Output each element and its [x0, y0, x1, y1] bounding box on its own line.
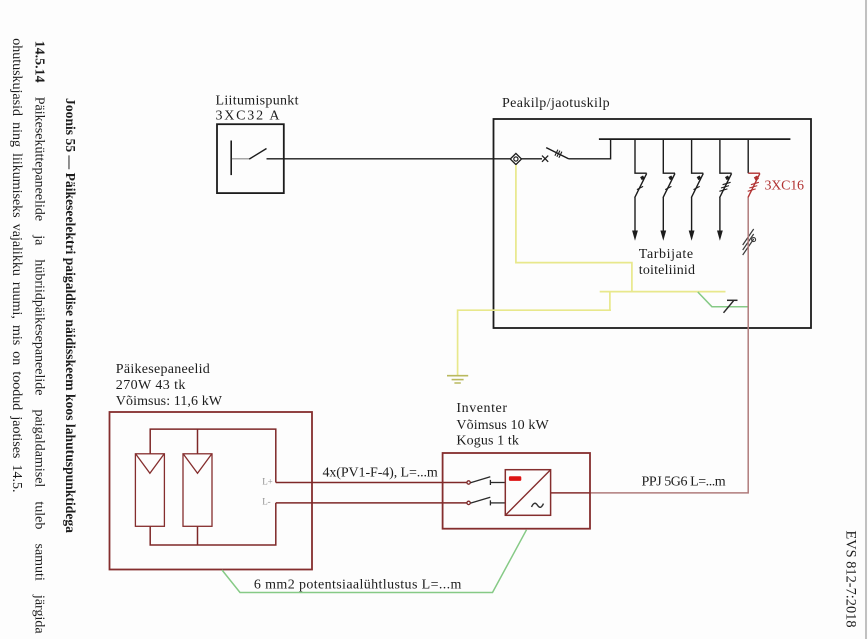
feeder breaker 5 (red, 3XC16): [747, 139, 749, 173]
PV string wiring top bus: [150, 429, 276, 482]
inverter output wire: [551, 492, 590, 494]
label Tarbijate toiteliinid: [639, 247, 695, 278]
svg-text:Võimsus: 11,6 kW: Võimsus: 11,6 kW: [116, 394, 223, 409]
svg-text:L+: L+: [262, 476, 273, 486]
PV array box: [110, 412, 313, 570]
feeder breaker 4: [717, 139, 732, 241]
svg-text:6 mm2 potentsiaalühtlustus L=.: 6 mm2 potentsiaalühtlustus L=...m: [254, 578, 462, 593]
feeder breaker 1: [632, 139, 647, 241]
PE wire (yellow) from meter: [516, 165, 632, 292]
PE busbar wire (yellow): [600, 291, 726, 293]
switch S1 blade: [249, 149, 266, 160]
main switch blade: [546, 148, 568, 159]
inverter box: [443, 453, 590, 529]
meter diamond node: [510, 153, 521, 164]
right page border: [865, 0, 867, 639]
label Inventer block: [456, 401, 549, 449]
label 4x(PV1-F-4): [323, 466, 438, 481]
svg-text:Võimsus 10 kW: Võimsus 10 kW: [456, 418, 549, 433]
figure caption Joonis 55 (rotated): [62, 98, 77, 533]
PV string wiring bottom bus: [150, 503, 276, 545]
equipotential bonding wire (green): [222, 530, 527, 593]
switch S1 pole bar: [230, 141, 232, 176]
svg-text:Kogus 1 tk: Kogus 1 tk: [456, 434, 519, 449]
feeder breaker 3: [689, 139, 704, 241]
switch S1 stub: [232, 158, 249, 160]
ground symbol: [447, 376, 468, 383]
wire switch to busbar riser: [569, 139, 611, 159]
earth link T mark: [724, 300, 738, 313]
red riser wire PPJ: [590, 198, 748, 493]
green link wire in panel: [698, 292, 748, 307]
DC wire L-: [276, 502, 467, 504]
svg-text:Tarbijate: Tarbijate: [639, 247, 693, 262]
svg-text:PPJ 5G6 L=...m: PPJ 5G6 L=...m: [642, 475, 726, 490]
svg-text:3XC16: 3XC16: [765, 179, 805, 194]
labels L+ L-: [262, 476, 273, 506]
svg-text:Päikesepaneelid: Päikesepaneelid: [116, 362, 210, 377]
busbar: [599, 138, 791, 140]
main switch X mark: [542, 156, 548, 162]
svg-text:270W 43 tk: 270W 43 tk: [116, 378, 186, 393]
paragraph 14.5.14 line 1 (rotated): [32, 41, 47, 635]
svg-text:Peakilp/jaotuskilp: Peakilp/jaotuskilp: [502, 96, 610, 111]
svg-text:ohutuskujasid ning liikumiseks: ohutuskujasid ning liikumiseks vajalikku…: [9, 38, 24, 492]
main distribution board box: [494, 119, 812, 328]
DC wire L+: [276, 482, 467, 484]
svg-text:Liitumispunkt: Liitumispunkt: [216, 94, 299, 109]
label PPJ 5G6: [642, 475, 726, 490]
DC switch 2: [467, 497, 505, 505]
wire Liitumispunkt to Peakilp: [267, 158, 511, 160]
standard reference EVS 812-7:2018 (rotated): [843, 531, 859, 628]
PE drop wire (yellow): [609, 292, 611, 311]
wire diamond to main switch: [522, 158, 543, 160]
PE wire to earth (yellow): [458, 310, 611, 375]
label 6 mm2 potentsiaaluhtlustus: [254, 578, 462, 593]
svg-text:Joonis 55 — Päikeseelektri pai: Joonis 55 — Päikeseelektri paigaldise nä…: [62, 98, 77, 533]
paragraph 14.5.14 line 2 (rotated): [9, 38, 24, 492]
inverter symbol U1: [505, 470, 550, 516]
svg-text:EVS 812-7:2018: EVS 812-7:2018: [843, 531, 859, 628]
svg-text:L-: L-: [262, 497, 271, 507]
DC switch 1: [467, 477, 505, 485]
label Peakilp/jaotuskilp: [502, 96, 610, 111]
PV panel 2: [183, 454, 212, 527]
svg-text:toiteliinid: toiteliinid: [639, 263, 695, 278]
PV panel 1: [135, 454, 164, 527]
label 3XC16: [765, 179, 805, 194]
svg-text:Inventer: Inventer: [456, 401, 507, 416]
feeder breaker 2: [660, 139, 675, 241]
svg-text:14.5.14 Päikeseküttepaneelide: 14.5.14 Päikeseküttepaneelide ja hübriid…: [32, 41, 47, 635]
label Liitumispunkt 3XC32 A: [216, 94, 299, 124]
svg-text:4x(PV1-F-4), L=...m: 4x(PV1-F-4), L=...m: [323, 466, 438, 481]
cable mark on red feeder: [743, 229, 756, 255]
svg-text:3XC32 A: 3XC32 A: [216, 109, 281, 124]
label Paikesepaneelid block: [116, 362, 223, 409]
connection point box (Liitumispunkt): [217, 124, 284, 193]
